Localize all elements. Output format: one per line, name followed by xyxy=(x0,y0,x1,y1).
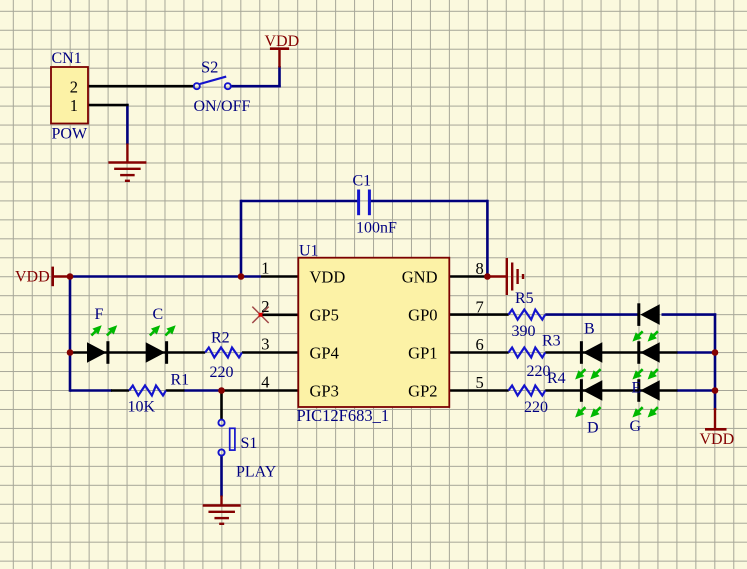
svg-text:7: 7 xyxy=(476,297,484,316)
svg-text:1: 1 xyxy=(70,96,78,115)
svg-text:D: D xyxy=(587,420,599,437)
svg-text:220: 220 xyxy=(210,364,234,381)
svg-text:E: E xyxy=(632,380,642,397)
svg-text:GP0: GP0 xyxy=(408,306,437,325)
svg-text:CN1: CN1 xyxy=(52,50,82,67)
svg-text:R3: R3 xyxy=(542,333,561,350)
svg-text:VDD: VDD xyxy=(265,33,300,50)
svg-text:S1: S1 xyxy=(241,435,258,452)
svg-text:GP1: GP1 xyxy=(408,343,437,362)
svg-text:U1: U1 xyxy=(299,243,319,260)
svg-text:S2: S2 xyxy=(201,58,218,77)
svg-text:PIC12F683_1: PIC12F683_1 xyxy=(297,406,390,425)
svg-text:VDD: VDD xyxy=(700,431,735,448)
svg-text:GP4: GP4 xyxy=(310,343,339,362)
svg-text:4: 4 xyxy=(261,373,269,392)
svg-text:2: 2 xyxy=(70,77,78,96)
svg-text:10K: 10K xyxy=(128,399,156,416)
svg-text:390: 390 xyxy=(512,323,536,340)
svg-text:220: 220 xyxy=(524,399,548,416)
svg-text:ON/OFF: ON/OFF xyxy=(194,98,251,115)
svg-text:C: C xyxy=(153,306,164,323)
svg-text:R4: R4 xyxy=(547,370,566,387)
svg-text:G: G xyxy=(630,418,642,435)
svg-text:8: 8 xyxy=(476,259,484,278)
svg-text:R1: R1 xyxy=(171,372,190,389)
svg-text:VDD: VDD xyxy=(15,269,50,286)
svg-text:F: F xyxy=(95,306,104,323)
svg-text:B: B xyxy=(584,321,595,338)
svg-text:GP2: GP2 xyxy=(408,381,437,400)
svg-text:C1: C1 xyxy=(353,173,372,190)
svg-text:PLAY: PLAY xyxy=(236,464,277,481)
svg-text:GP3: GP3 xyxy=(310,381,339,400)
svg-text:R2: R2 xyxy=(211,330,230,347)
svg-text:6: 6 xyxy=(476,335,484,354)
svg-text:POW: POW xyxy=(52,126,88,143)
svg-text:100nF: 100nF xyxy=(356,220,397,237)
svg-text:GP5: GP5 xyxy=(310,306,339,325)
svg-text:3: 3 xyxy=(261,335,269,354)
svg-text:5: 5 xyxy=(476,373,484,392)
svg-text:GND: GND xyxy=(402,267,438,286)
svg-text:1: 1 xyxy=(261,259,269,278)
svg-text:2: 2 xyxy=(261,297,269,316)
svg-text:R5: R5 xyxy=(515,290,534,307)
svg-text:VDD: VDD xyxy=(310,267,346,286)
